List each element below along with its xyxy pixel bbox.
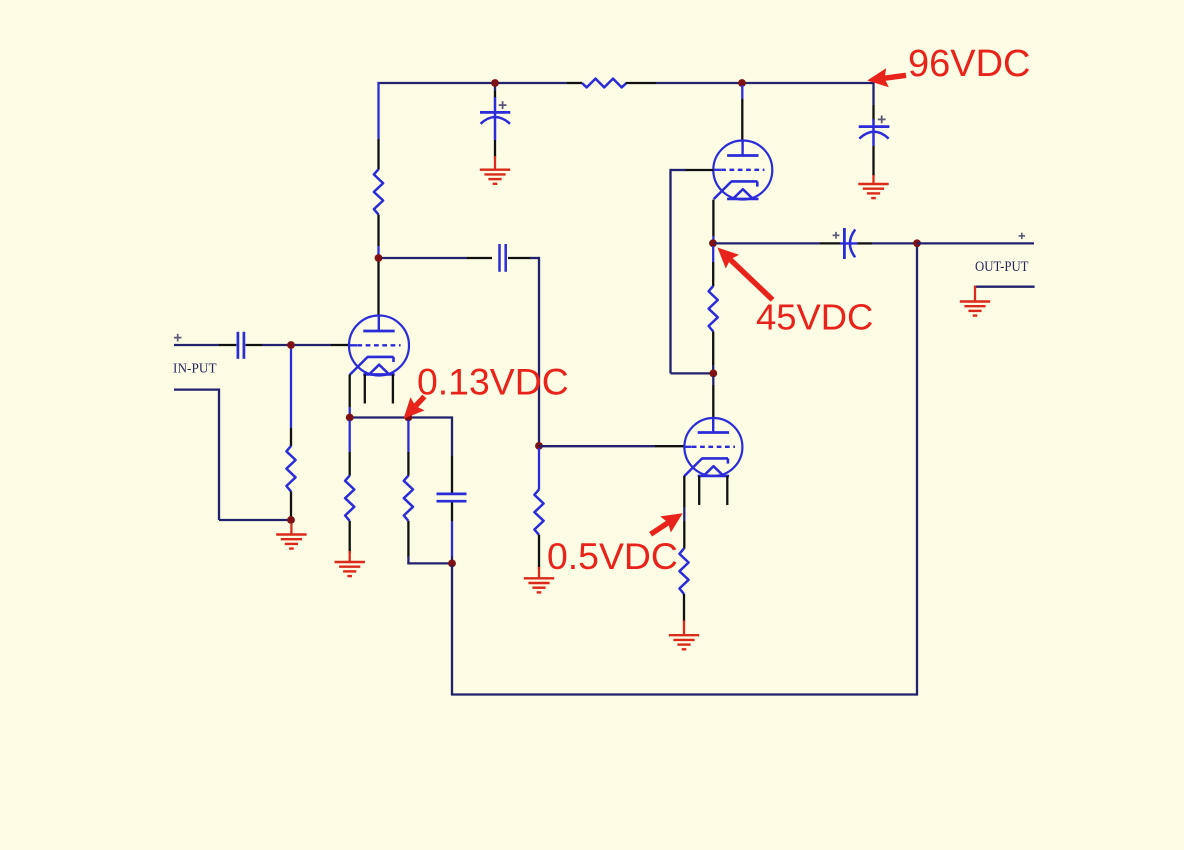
ground C5 ground [872,175,874,184]
ground input ground [290,524,292,535]
triode U2 second stage [713,141,772,200]
capacitor C6 output coupling electrolytic [840,242,858,244]
wire top rail B+ left segment [379,82,568,84]
capacitor C5 output supply electrolytic [872,119,875,146]
node grid U3 junction [535,442,543,450]
wire 45VDC node to output cap [715,242,820,244]
node + input terminal wire [174,344,219,346]
wire C1 to grid node [262,344,331,346]
wire cathode node rail [350,416,452,418]
node input-ground junction [287,516,295,524]
node 0.13VDC junction [405,414,413,422]
wire grid U2 loop [671,169,686,171]
pin + polarity mark of C2 [499,104,507,106]
capacitor C2 supply filter electrolytic [494,97,497,140]
wire top rail stub left of resistor [567,82,582,84]
resistor R1 plate-load of U1 (left vertical) [374,169,383,214]
wire top rail stub right of resistor [626,82,656,84]
wire after C6 to output junction [858,242,873,244]
wire input lower terminal [174,388,219,390]
arrow to 45VDC node [730,260,772,300]
resistor R7 cathode load of U2 [709,286,718,331]
svg-text:0.13VDC: 0.13VDC [417,360,569,402]
wire stub below C5 [872,146,874,176]
resistor R8 cathode bias of U3 [679,549,688,594]
capacitor C1 input coupling [237,332,240,359]
triode U3 lower stage [684,418,742,476]
wire plate pin of U2 [741,85,743,99]
node cathode U1 junction [346,414,354,422]
triode U1 first stage [349,316,409,376]
node output junction [913,239,921,247]
ground R6 ground [538,567,540,578]
wire grid lead U2 [685,169,714,171]
wire plate pin of U1 [377,261,379,317]
wire C3 branch vertical upper [451,416,453,456]
ground C2 ground [494,156,496,170]
wire cathode pin U3 [683,476,685,507]
wire corner down to C5 [872,82,874,105]
ground output ground [974,286,976,302]
wire feedback bottom rail [451,565,453,695]
wire R4 upper stub [349,420,351,452]
wire stub below C2 [494,140,496,157]
svg-text:96VDC: 96VDC [908,43,1031,85]
wire C4 to corner and down [530,257,539,259]
wire plate pin of U3 [712,376,714,385]
pin + output polarity mark [1019,235,1025,237]
wire stub before C4 [467,257,492,259]
pin + polarity mark of C6 [833,234,840,236]
wire top rail B+ right segment [656,82,875,84]
resistor R3 grid-leak of U1 [286,446,295,491]
wire grid pin stub of U1 [331,344,349,346]
wire cathode pin U2 [712,200,714,236]
arrow to 0.5VDC node [651,523,669,534]
wire R7 upper stub [712,246,714,262]
wire R3 bottom stub [290,491,292,520]
wire R8 lower stub [683,594,685,622]
svg-text:OUT-PUT: OUT-PUT [975,259,1029,275]
node C2 top junction [491,79,499,87]
wire grid node down [290,345,292,428]
pin + input polarity mark [174,337,182,339]
wire input stub after C1 [246,344,263,346]
arrow to 96VDC node [885,75,907,78]
node plate U1 junction [375,254,383,262]
wire stub after C4 [508,257,531,259]
node plate U2 junction [738,79,746,87]
wire stub above C2 [494,85,496,91]
wire R6 upper stub [538,448,540,490]
wire input stub before C1 [219,344,236,346]
resistor R6 grid-leak of U3 [534,490,543,535]
arrow to 0.13VDC node [416,397,425,407]
wire output lower terminal [975,286,1035,288]
wire grid node U3 to tube [539,445,655,447]
wire cathode pin U1 [349,374,351,407]
wire R5 upper stub [407,420,409,452]
wire R4 lower stub [349,521,351,553]
capacitor C4 interstage coupling [498,244,501,272]
wire plate node to coupling cap [377,257,467,259]
node grid input junction [287,341,295,349]
ground cathode R4 ground [349,551,351,562]
wire R6 lower stub [538,535,540,569]
pin + polarity mark of C5 [878,118,886,120]
resistor R4 cathode bias of U1 [345,476,354,521]
svg-text:IN-PUT: IN-PUT [173,361,217,376]
ground R8 ground [683,621,685,636]
svg-text:0.5VDC: 0.5VDC [547,535,678,577]
node U3 plate junction [709,370,717,378]
node 45VDC cathode-follower output junction [709,239,717,247]
capacitor C3 cathode bypass [437,493,467,496]
svg-text:45VDC: 45VDC [756,297,873,338]
wire R1 bottom stub [377,215,379,246]
wire C3 branch vertical lower [451,503,453,522]
node cathode-bypass bottom junction [448,560,456,568]
resistor R5 cathode network of U1 [404,476,413,521]
wire output + terminal [917,242,1034,244]
resistor R2 plate-load of U2 (top horizontal) [582,79,626,88]
wire R7 lower stub [712,331,714,365]
wire left rail down from top corner [377,82,379,139]
wire R5 lower stub and corner [407,521,409,557]
